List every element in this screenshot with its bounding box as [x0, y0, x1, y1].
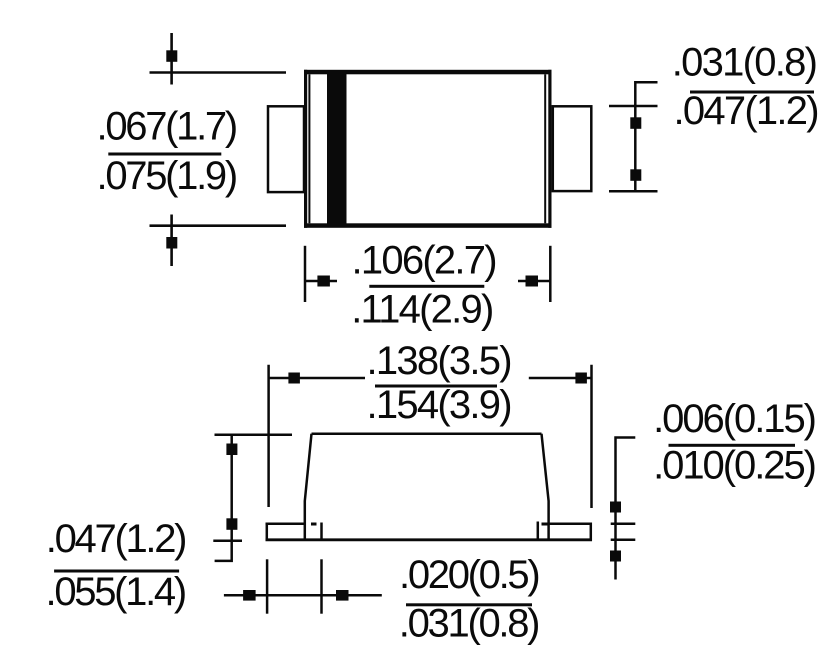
top view inner edge line left — [308, 74, 310, 223]
dim G left arrowhead — [243, 590, 256, 601]
dim G left extension line — [266, 559, 269, 613]
dim E bottom arrowhead — [610, 551, 621, 562]
dim F fraction bar — [54, 570, 179, 573]
svg-text:.006(0.15): .006(0.15) — [653, 397, 815, 441]
dim C right arrow line — [518, 280, 550, 283]
dim C left extension line — [304, 246, 307, 302]
dim B bottom tick — [609, 190, 658, 193]
svg-text:.031(0.8): .031(0.8) — [672, 41, 816, 85]
right lead (top view) — [553, 106, 592, 191]
dim A top arrowhead — [166, 50, 177, 62]
svg-text:.047(1.2): .047(1.2) — [46, 517, 185, 561]
svg-text:.154(3.9): .154(3.9) — [367, 383, 511, 427]
side view right lead inner mark — [537, 522, 540, 540]
svg-text:.055(1.4): .055(1.4) — [46, 570, 185, 614]
dim D fraction bar — [375, 385, 497, 388]
side view body right slant edge — [542, 434, 549, 540]
dim E fraction bar — [669, 444, 796, 447]
top view body outline — [304, 70, 552, 228]
side view left lead inner mark — [320, 523, 323, 540]
cathode band — [327, 71, 347, 227]
svg-text:.106(2.7): .106(2.7) — [352, 238, 496, 282]
dim C left arrow line — [305, 280, 337, 283]
svg-text:.138(3.5): .138(3.5) — [367, 339, 511, 383]
dim G right extension line — [320, 559, 323, 613]
svg-text:.067(1.7): .067(1.7) — [97, 105, 236, 149]
side view lead bottom line — [266, 538, 593, 541]
dim D right arrow line — [529, 377, 592, 380]
dim B bottom arrowhead — [630, 169, 641, 181]
dim A bottom arrow line — [170, 215, 173, 267]
side view body left slant edge — [305, 434, 312, 540]
side view body top edge — [312, 432, 542, 435]
svg-text:.075(1.9): .075(1.9) — [97, 154, 236, 198]
dim A bottom extension line — [150, 224, 287, 227]
dim D left arrow line — [269, 377, 365, 380]
dim F vertical line with corner — [215, 435, 232, 561]
dim E bottom tick — [611, 538, 636, 541]
dim E top tick — [611, 522, 636, 525]
dim C right arrowhead — [526, 276, 539, 287]
dim C fraction bar — [369, 285, 484, 288]
side view left hidden lead dash — [311, 523, 317, 526]
dim C left arrowhead — [317, 276, 330, 287]
dim F top tick — [215, 433, 293, 436]
dim E leader corner — [616, 438, 636, 580]
left lead (top view) — [268, 106, 304, 192]
dim B top tick — [609, 105, 658, 108]
dim D left extension line — [267, 365, 270, 507]
dim B fraction bar — [690, 91, 814, 94]
svg-text:.020(0.5): .020(0.5) — [399, 553, 538, 597]
top view inner edge line right — [544, 74, 546, 223]
side view left lead top line — [266, 522, 305, 525]
dim G right arrowhead — [336, 590, 349, 601]
side view right lead top line — [549, 522, 592, 525]
dim C right extension line — [549, 246, 552, 302]
dim B top arrowhead — [630, 117, 641, 129]
svg-text:.031(0.8): .031(0.8) — [399, 602, 538, 646]
side view right hidden lead dash — [542, 523, 548, 526]
svg-text:.010(0.25): .010(0.25) — [653, 443, 815, 487]
side view left lead tip — [266, 523, 269, 541]
dim G fraction bar — [406, 603, 532, 606]
dim G arrow line — [224, 594, 382, 597]
dim B leader corner — [635, 82, 657, 192]
dim F bottom arrowhead — [226, 518, 237, 530]
dim A fraction bar — [108, 153, 221, 156]
dim E top arrowhead — [610, 502, 621, 513]
svg-text:.114(2.9): .114(2.9) — [351, 287, 492, 331]
side view right lead tip — [590, 523, 593, 541]
dim A top extension line — [150, 71, 287, 74]
svg-text:.047(1.2): .047(1.2) — [674, 89, 818, 133]
dim F top arrowhead — [226, 444, 237, 456]
dim D left arrowhead — [288, 373, 300, 384]
dim A bottom arrowhead — [166, 237, 177, 249]
dim A top arrow line — [170, 33, 173, 85]
dim D right extension line — [590, 365, 593, 508]
dim F bottom tick — [213, 539, 242, 542]
dim D right arrowhead — [575, 373, 587, 384]
